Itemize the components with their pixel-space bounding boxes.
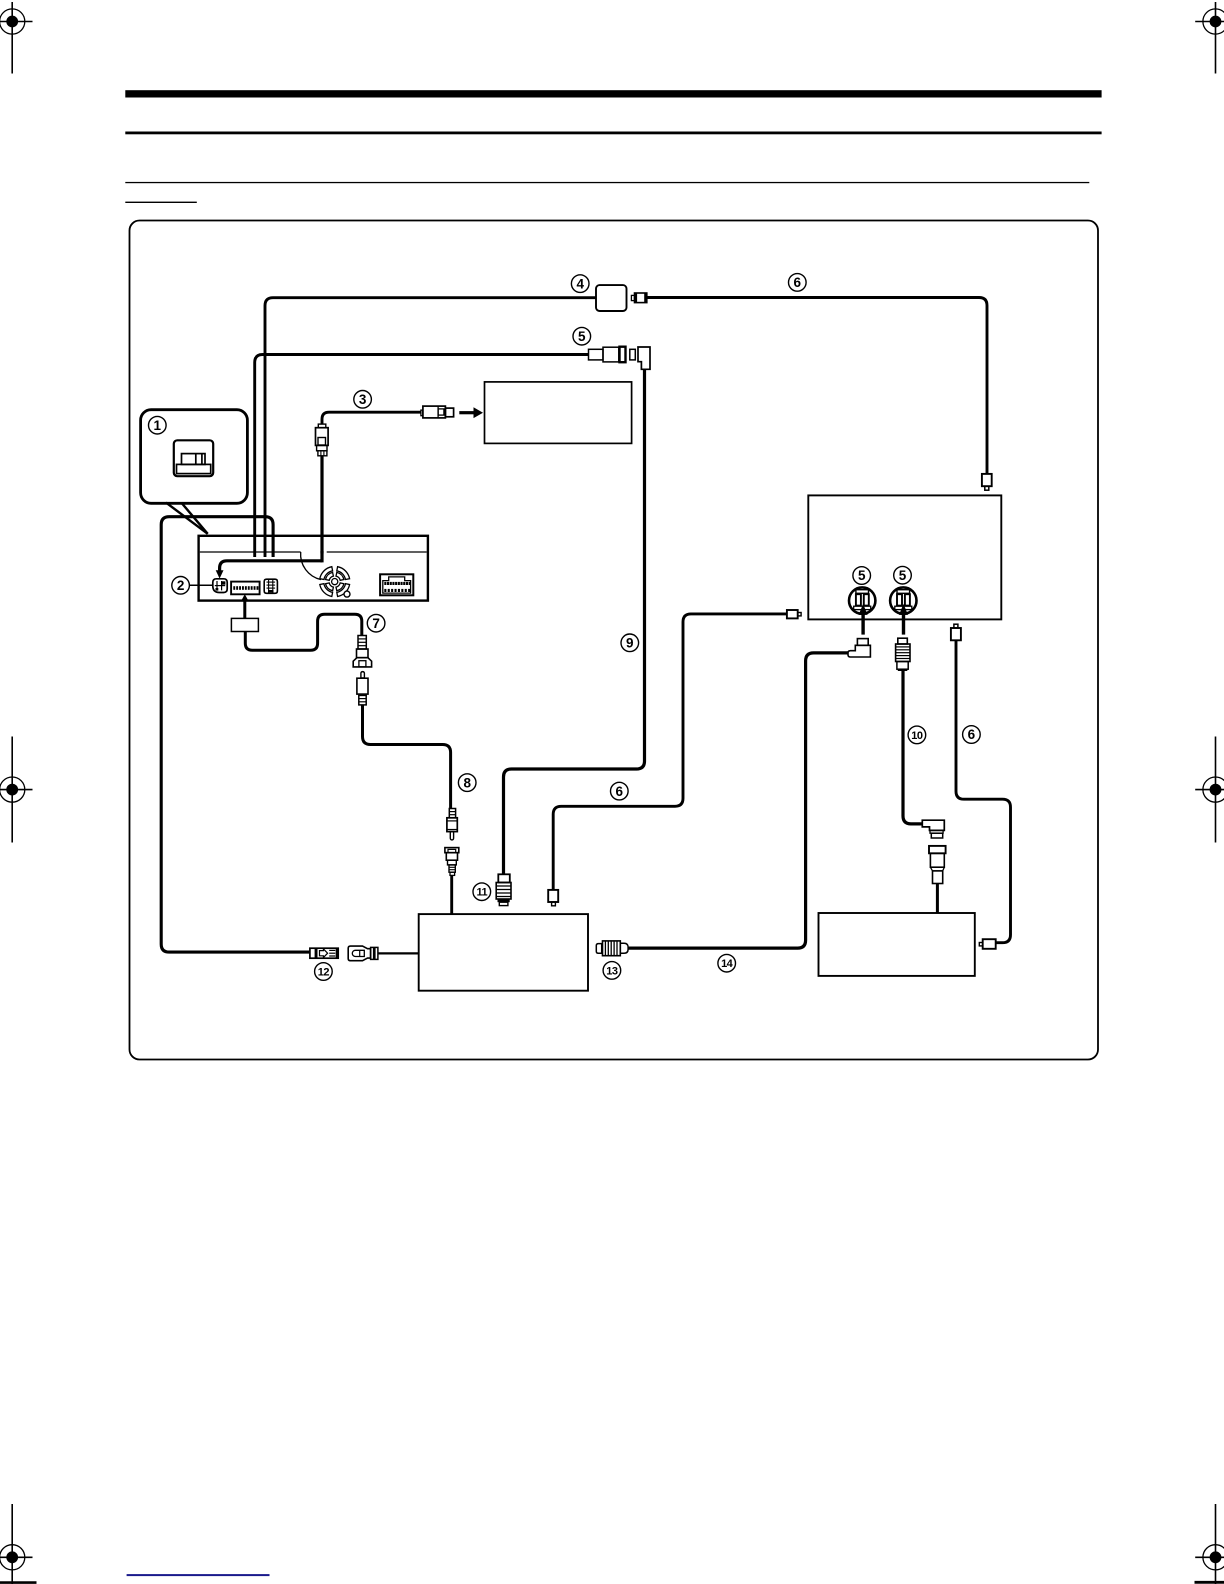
power plug 13 (left-facing, at converter box) (596, 941, 628, 956)
footer link underline (blue) (127, 1574, 270, 1576)
wire from item 5 plug into head unit (255, 355, 589, 558)
extension wire 6 (top run) (647, 298, 987, 474)
crossing joint of cable 3 (320, 551, 323, 562)
equipment box (cable 3 destination) (485, 382, 632, 444)
svg-text:10: 10 (911, 730, 923, 742)
svg-text:6: 6 (616, 784, 624, 799)
plug on module box 4 lead (631, 293, 646, 303)
insertion arrow into socket A (859, 604, 868, 635)
circled label 9 (621, 634, 639, 652)
wire from plug 10 into tuner box (936, 884, 939, 913)
svg-text:2: 2 (177, 578, 185, 593)
DIN plug 11 (down-facing, into converter box) (496, 874, 511, 905)
insertion arrow for cable 3 (459, 407, 483, 418)
right-angle DIN plug below socket A (848, 639, 870, 657)
wire from antenna socket down to RCA plug 8 (363, 705, 451, 809)
svg-text:6: 6 (968, 727, 976, 742)
title bar (thick rule) (125, 90, 1101, 97)
extension wire 6 (middle run) (553, 614, 787, 890)
svg-text:4: 4 (576, 276, 584, 291)
svg-text:8: 8 (463, 775, 471, 790)
antenna plug 7 (male, down-facing) (353, 636, 371, 667)
plug at monitor end of wire 6 (middle) (787, 610, 801, 618)
right-angle plug 5 (elbow) (638, 347, 650, 369)
empty label box under multi-pin connector (231, 618, 258, 631)
insertion arrow into socket B (899, 604, 908, 635)
circled label 2 (172, 577, 190, 595)
cable 9 from elbow plug down to plug 11 (504, 369, 645, 874)
head unit rear panel (199, 536, 428, 601)
extension wire 6 (right run) (956, 640, 1011, 942)
svg-text:5: 5 (858, 568, 866, 583)
thin section rule (125, 182, 1089, 183)
balloon tail pointer (166, 503, 208, 534)
svg-text:5: 5 (899, 568, 907, 583)
plug at lower end of wire 6 (middle) (548, 890, 558, 906)
head unit top panel line (right part) (327, 551, 427, 553)
circled label 6 (top wire) (789, 274, 807, 292)
plug mating adapter 10 (down-facing) (929, 846, 946, 884)
wire of cable 3 into head unit (220, 456, 322, 571)
wire from label box to antenna plug 7 (245, 614, 361, 650)
media unit icon inside balloon (174, 440, 213, 476)
wire from RCA jack into converter box (450, 875, 453, 913)
panel curve near fan (301, 552, 321, 580)
ISO power connector on head unit (380, 574, 413, 595)
circled label 10 (908, 726, 926, 744)
connector socket 2 on head unit (213, 579, 227, 593)
bullet terminal 12 (male) (310, 948, 338, 958)
leader line from label 2 (189, 584, 212, 586)
crop mark middle-left (0, 737, 33, 843)
tuner box (bottom right) (819, 913, 975, 976)
mating piece of plug 5 (630, 349, 636, 360)
svg-text:9: 9 (626, 636, 634, 651)
arrowhead into connector 2 (216, 570, 224, 578)
svg-text:6: 6 (794, 275, 802, 290)
svg-text:12: 12 (318, 966, 330, 978)
svg-text:7: 7 (372, 616, 380, 631)
converter box (bottom left) (419, 914, 588, 991)
module box 4 (596, 285, 627, 311)
circled label 6 (right wire) (963, 726, 981, 744)
multi-pin connector on head unit (231, 582, 260, 595)
bullet terminal 12 (female) (348, 946, 378, 961)
cooling fan on head unit (320, 567, 350, 597)
circled label 1 (149, 416, 167, 434)
small connector socket mid on head unit (264, 579, 277, 593)
head unit top panel line (left part) (200, 551, 301, 553)
circled label 5 (lead assembly) (573, 327, 591, 345)
svg-text:13: 13 (606, 965, 618, 977)
wire from item 4 into head unit (265, 298, 596, 557)
plug at end of wire 6 (top) (982, 474, 992, 490)
callout balloon (item 1) (141, 410, 248, 504)
antenna socket (female, mates plug 7) (357, 672, 368, 705)
round DIN socket B on monitor (890, 587, 916, 613)
long wire from head unit to bullet terminal 12 (161, 517, 309, 952)
circled label 6 (middle wire) (611, 782, 629, 800)
S-video plug of cable 3 (down-facing) (316, 424, 329, 456)
svg-text:1: 1 (154, 418, 162, 433)
insertion arrow from label box to multi-pin connector (241, 594, 249, 618)
cable 3 horizontal lead (322, 412, 421, 424)
circled label 5 (socket A) (853, 567, 871, 585)
diagram border (rounded frame) (130, 221, 1099, 1060)
circled label 13 (603, 962, 621, 980)
plug at tuner end of wire 6 (right) (979, 939, 995, 949)
crop mark top-left (0, 2, 33, 74)
power wire 14 from plug 13 to tuner box elbow (628, 653, 848, 948)
crop mark top-right (1195, 2, 1224, 74)
corner trim mark bottom-right (1195, 1581, 1224, 1584)
round DIN socket A on monitor (849, 587, 875, 613)
circled label 14 (718, 954, 736, 972)
RCA plug 8 (male, down-facing) (447, 809, 457, 840)
crop mark bottom-right (1195, 1504, 1224, 1584)
RCA jack (female, mates plug 8) (445, 848, 459, 876)
wire from bullet terminal into converter box (378, 952, 419, 954)
DIN plug below socket B (896, 638, 910, 671)
plug at monitor end of wire 6 (right) (951, 624, 961, 640)
crop mark bottom-left (0, 1504, 33, 1584)
circled label 7 (367, 614, 385, 632)
corner trim mark bottom-left (0, 1581, 37, 1584)
heading rule (125, 132, 1101, 135)
monitor box (top right) (808, 495, 1001, 619)
circled label 8 (458, 774, 476, 792)
svg-text:3: 3 (359, 392, 367, 407)
circled label 12 (315, 963, 333, 981)
short subheading underline (125, 202, 197, 203)
circled label 3 (354, 391, 372, 409)
svg-text:11: 11 (476, 887, 487, 899)
circled label 11 (473, 883, 491, 901)
circled label 5 (socket B) (894, 566, 912, 584)
crop mark middle-right (1195, 737, 1224, 843)
antenna lead plug 5 (stepped barrel) (589, 347, 626, 363)
mini-DIN plug of cable 3 (right-facing) (421, 406, 454, 418)
circled label 4 (571, 275, 589, 293)
svg-text:5: 5 (578, 329, 586, 344)
right-angle adapter 10 (922, 820, 944, 838)
svg-text:14: 14 (721, 958, 734, 970)
cable 10 from DIN plug to elbow adapter (903, 671, 922, 824)
